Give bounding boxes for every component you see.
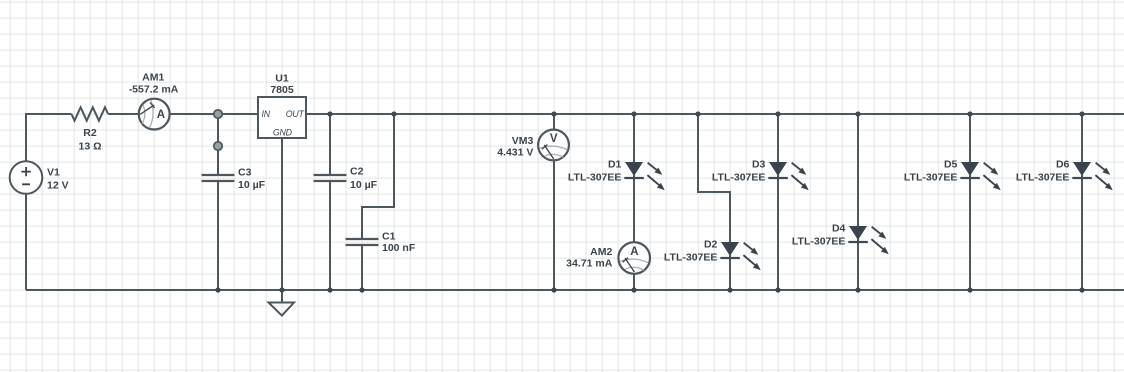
junction C2 top <box>327 111 332 116</box>
wire R2 to U1 IN <box>108 113 258 115</box>
junction C1 bottom <box>359 287 364 292</box>
svg-text:LTL-307EE: LTL-307EE <box>904 172 957 184</box>
svg-text:D6: D6 <box>1056 159 1070 171</box>
node gray dot A <box>214 110 222 118</box>
wire C2 branch <box>329 114 331 290</box>
svg-text:100 nF: 100 nF <box>382 242 416 254</box>
svg-text:A: A <box>630 246 638 258</box>
svg-text:D1: D1 <box>608 159 622 171</box>
junction D4 top <box>855 111 860 116</box>
svg-text:LTL-307EE: LTL-307EE <box>568 172 621 184</box>
bottom rail wire <box>26 289 1124 291</box>
LED D1 <box>624 160 666 192</box>
junction D1 top <box>631 111 636 116</box>
junction VM3 top <box>551 111 556 116</box>
junction D6 top <box>1079 111 1084 116</box>
svg-text:D5: D5 <box>944 159 958 171</box>
junction VM3 bottom <box>551 287 556 292</box>
junction C3 bottom <box>215 287 220 292</box>
wire VM3 branch <box>553 114 555 290</box>
wire C1 branch <box>362 114 394 290</box>
LED D6 <box>1072 160 1114 192</box>
svg-text:34.71 mA: 34.71 mA <box>566 257 613 269</box>
wire U1 GND <box>281 138 283 303</box>
svg-text:VM3: VM3 <box>512 135 534 147</box>
capacitor C2 <box>314 175 347 181</box>
top rail wire U1 OUT to right edge <box>306 113 1124 115</box>
resistor R2 <box>72 107 109 120</box>
wire D4 branch <box>857 114 859 290</box>
capacitor C1 <box>346 239 379 245</box>
junction AM2 bottom <box>631 287 636 292</box>
svg-text:V1: V1 <box>47 166 60 178</box>
wire D1 AM2 branch <box>633 114 635 290</box>
junction D4 bottom <box>855 287 860 292</box>
wire D2 branch <box>698 114 730 290</box>
ammeter AM1 <box>139 99 170 130</box>
LED D4 <box>848 224 890 256</box>
junction D2 top <box>695 111 700 116</box>
svg-text:C2: C2 <box>350 165 364 177</box>
junction C2 bottom <box>327 287 332 292</box>
svg-text:7805: 7805 <box>270 84 294 96</box>
LED D2 <box>720 240 762 272</box>
svg-text:D3: D3 <box>752 159 766 171</box>
svg-text:AM1: AM1 <box>142 71 164 83</box>
junction D5 bottom <box>967 287 972 292</box>
svg-text:C1: C1 <box>382 230 396 242</box>
wire C3 branch <box>217 114 219 290</box>
svg-text:V: V <box>550 133 558 145</box>
svg-text:D2: D2 <box>704 239 718 251</box>
svg-text:13 Ω: 13 Ω <box>78 140 101 152</box>
svg-text:LTL-307EE: LTL-307EE <box>664 252 717 264</box>
junction D3 bottom <box>775 287 780 292</box>
svg-text:LTL-307EE: LTL-307EE <box>712 172 765 184</box>
wire D3 branch <box>777 114 779 290</box>
svg-text:LTL-307EE: LTL-307EE <box>1016 172 1069 184</box>
svg-text:LTL-307EE: LTL-307EE <box>792 236 845 248</box>
ground <box>269 303 295 316</box>
svg-text:-557.2 mA: -557.2 mA <box>129 83 179 95</box>
voltmeter VM3 <box>538 130 569 161</box>
junction C1 top <box>391 111 396 116</box>
junction ground bottom <box>279 287 284 292</box>
junction D5 top <box>967 111 972 116</box>
svg-text:GND: GND <box>273 127 293 137</box>
svg-text:R2: R2 <box>83 127 97 139</box>
svg-text:C3: C3 <box>238 166 252 178</box>
svg-text:A: A <box>157 109 165 121</box>
capacitor C3 <box>202 175 235 181</box>
junction D2 bottom <box>727 287 732 292</box>
LED D5 <box>960 160 1002 192</box>
regulator U1 body <box>258 97 306 138</box>
svg-text:U1: U1 <box>275 73 289 85</box>
junction D6 bottom <box>1079 287 1084 292</box>
svg-text:OUT: OUT <box>286 109 305 119</box>
svg-text:IN: IN <box>262 109 271 119</box>
svg-text:10 µF: 10 µF <box>238 179 266 191</box>
svg-text:AM2: AM2 <box>590 246 612 258</box>
junction D3 top <box>775 111 780 116</box>
node gray dot B <box>214 142 222 150</box>
voltage source V1 <box>10 161 43 194</box>
wire D5 branch <box>969 114 971 290</box>
svg-text:4.431 V: 4.431 V <box>497 147 533 159</box>
ammeter AM2 <box>618 242 650 274</box>
wire V1 top to R2 <box>26 114 72 161</box>
svg-text:10 µF: 10 µF <box>350 179 378 191</box>
svg-text:D4: D4 <box>832 223 846 235</box>
svg-text:12 V: 12 V <box>47 179 69 191</box>
wire D6 branch <box>1081 114 1083 290</box>
LED D3 <box>768 160 810 192</box>
wire V1 bottom to bottom rail <box>25 194 27 290</box>
